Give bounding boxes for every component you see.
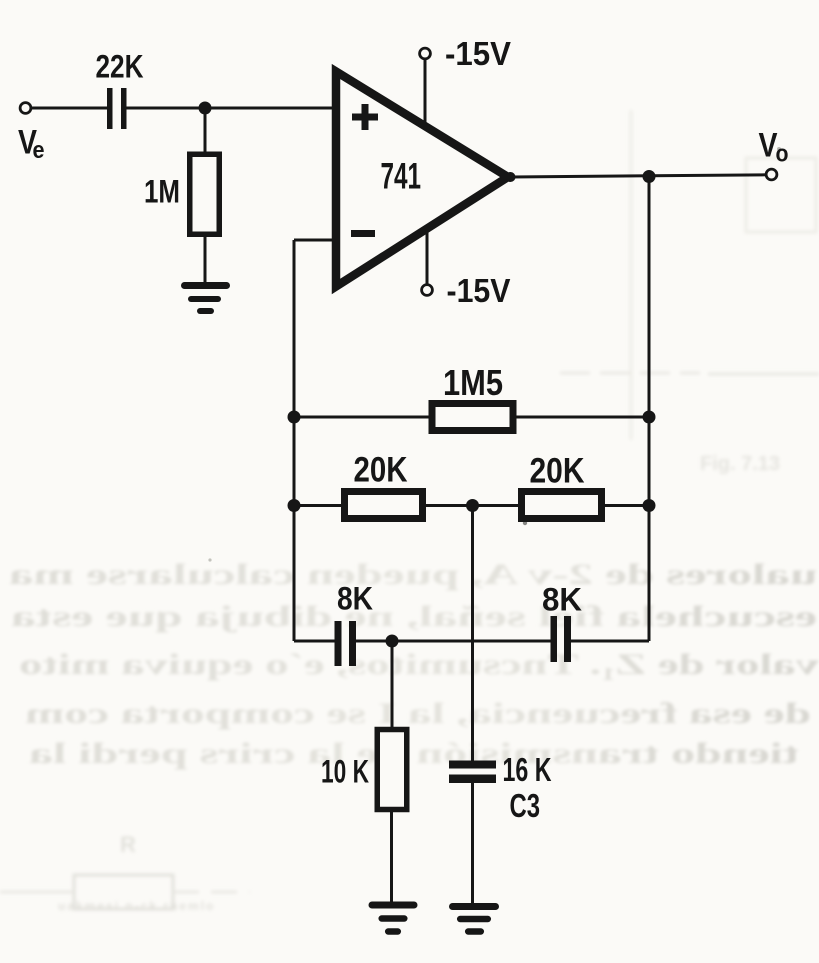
svg-text:16 K: 16 K bbox=[503, 751, 552, 788]
node D right 1M5 junction bbox=[643, 411, 656, 424]
wire output bbox=[511, 175, 767, 177]
wire 8K row left bbox=[294, 640, 336, 643]
ground below R5 bbox=[372, 905, 414, 932]
svg-text:de esa frecuencia, la I se com: de esa frecuencia, la I se comporta com bbox=[25, 697, 811, 730]
wire bottom supply pin bbox=[426, 229, 429, 285]
svg-text:valor de Z₁. Tncsumitos, e´o e: valor de Z₁. Tncsumitos, e´o equiva mito bbox=[19, 648, 819, 681]
wire node A to R1 bbox=[204, 108, 207, 155]
node E left 20K junction bbox=[288, 499, 301, 512]
wire 20K row middle bbox=[424, 504, 523, 507]
resistor R1 1M bbox=[190, 154, 220, 234]
wire C1 to op-amp + input bbox=[126, 107, 333, 110]
wire center vertical node F to C3 bbox=[471, 506, 474, 762]
capacitor C3 16K bbox=[449, 761, 496, 784]
svg-text:10 K: 10 K bbox=[321, 754, 369, 790]
svg-text:8K: 8K bbox=[542, 582, 582, 618]
svg-text:8K: 8K bbox=[337, 581, 373, 617]
terminal -15V bottom bbox=[422, 285, 433, 296]
capacitor C1 22K bbox=[107, 88, 127, 129]
node G right 20K junction bbox=[643, 499, 656, 512]
svg-text:-15V: -15V bbox=[447, 272, 511, 309]
svg-text:1M: 1M bbox=[144, 174, 180, 210]
svg-text:20K: 20K bbox=[530, 452, 585, 491]
svg-text:Fig. 7.13: Fig. 7.13 bbox=[700, 453, 780, 475]
input terminal Ve bbox=[20, 103, 31, 114]
capacitor C2 8K left bbox=[335, 621, 357, 666]
label Ve bbox=[18, 124, 45, 165]
node A junction bbox=[199, 102, 212, 115]
svg-text:20K: 20K bbox=[354, 451, 408, 490]
svg-text:1M5: 1M5 bbox=[443, 362, 503, 403]
svg-text:uakmesi n-ck rnemlo: uakmesi n-ck rnemlo bbox=[58, 899, 215, 913]
wire 20K row left bbox=[294, 504, 346, 507]
wire 8K row right bbox=[570, 640, 649, 643]
ground below R1 bbox=[185, 286, 227, 312]
node H 10K junction bbox=[386, 635, 399, 648]
label Vo bbox=[759, 127, 789, 168]
output terminal Vo bbox=[766, 169, 777, 180]
wire 20K row right bbox=[603, 504, 649, 507]
wire right feedback vertical bbox=[648, 177, 651, 642]
svg-text:e: e bbox=[33, 137, 45, 164]
wire left feedback vertical bbox=[293, 240, 296, 641]
svg-text:22K: 22K bbox=[96, 49, 144, 85]
svg-text:escuchela fiel señal, ne dibuj: escuchela fiel señal, ne dibuja que esta bbox=[11, 600, 817, 633]
svg-text:tiendo transmisión de la crirs: tiendo transmisión de la crirs perdi la bbox=[29, 737, 799, 770]
wire top supply pin bbox=[424, 57, 427, 126]
resistor R5 10K bbox=[377, 730, 407, 810]
svg-text:o: o bbox=[776, 141, 789, 168]
wire R1 to ground bbox=[204, 233, 207, 287]
wire 1M5 row left bbox=[294, 416, 433, 419]
node at op-amp output apex bbox=[506, 172, 516, 182]
wire R5 to ground bbox=[390, 810, 393, 906]
wire node H to R5 bbox=[391, 641, 394, 730]
resistor R2 1M5 bbox=[432, 404, 513, 431]
wire - input stub bbox=[294, 239, 333, 242]
node C left 1M5 junction bbox=[288, 411, 301, 424]
node B output junction bbox=[643, 170, 656, 183]
svg-text:ualores de 2-v A, pueden calcu: ualores de 2-v A, pueden calcularse ma bbox=[9, 558, 817, 591]
node F center 20K junction bbox=[466, 499, 479, 512]
resistor R4 20K right bbox=[522, 492, 602, 519]
wire 1M5 row right bbox=[513, 416, 649, 419]
op-amp + input marking bbox=[352, 104, 378, 130]
resistor R3 20K left bbox=[345, 492, 423, 519]
svg-text:741: 741 bbox=[381, 156, 422, 197]
capacitor C4 8K right bbox=[551, 616, 572, 662]
wire C3 to ground bbox=[471, 782, 474, 907]
wire 8K row middle bbox=[355, 640, 552, 643]
op-amp U1 741 body bbox=[336, 72, 508, 287]
svg-text:C3: C3 bbox=[510, 787, 541, 824]
op-amp - input marking bbox=[351, 230, 375, 237]
terminal -15V top bbox=[420, 48, 431, 59]
svg-text:-15V: -15V bbox=[445, 35, 511, 72]
ground below C3 bbox=[453, 907, 496, 932]
svg-text:R: R bbox=[120, 832, 136, 857]
wire input terminal to C1 bbox=[32, 107, 108, 110]
